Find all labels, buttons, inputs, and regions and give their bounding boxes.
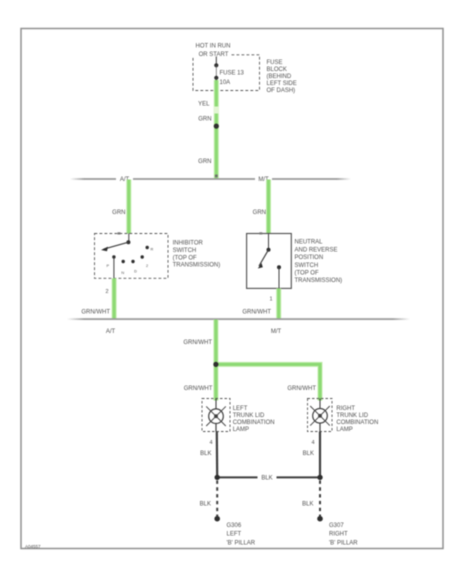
fuse block location label: [267, 60, 297, 94]
svg-text:RIGHT: RIGHT: [336, 406, 355, 412]
svg-text:D: D: [134, 270, 137, 274]
svg-text:AND REVERSE: AND REVERSE: [295, 247, 338, 253]
svg-text:G306: G306: [227, 523, 242, 529]
svg-text:(TOP OF: (TOP OF: [173, 256, 197, 262]
pin tick right box top: [259, 232, 262, 234]
left trunk lid combination lamp dashed box: [202, 399, 230, 432]
svg-text:A04557: A04557: [25, 544, 41, 549]
svg-text:GRN: GRN: [198, 117, 211, 123]
svg-text:SWITCH: SWITCH: [295, 263, 319, 269]
svg-text:N: N: [121, 271, 124, 275]
connector tick at rail 1: [215, 175, 218, 178]
svg-text:GRN/WHT: GRN/WHT: [183, 340, 212, 346]
svg-text:GRN: GRN: [198, 159, 211, 165]
svg-text:10A: 10A: [220, 80, 231, 86]
svg-text:G307: G307: [329, 523, 344, 529]
svg-text:2: 2: [146, 264, 148, 268]
svg-text:INHIBITOR: INHIBITOR: [173, 241, 204, 247]
connector rail 2: [67, 318, 410, 320]
left lamp label: [233, 406, 275, 433]
svg-text:YEL: YEL: [198, 101, 210, 107]
svg-text:COMBINATION: COMBINATION: [233, 420, 275, 426]
page frame border: [21, 29, 443, 549]
ground label G307 RIGHT B PILLAR: [329, 523, 358, 546]
neutral switch label: [295, 240, 343, 285]
inhibitor switch contacts: [101, 234, 154, 279]
ground point G306: [214, 516, 220, 522]
svg-text:2: 2: [105, 289, 108, 295]
splice junction dot: [213, 362, 218, 367]
svg-text:POSITION: POSITION: [295, 255, 324, 261]
fuse value label FUSE 13 10A: [220, 70, 245, 86]
connector rail 1: [70, 178, 351, 180]
ground label G306 LEFT B PILLAR: [227, 523, 256, 546]
neutral switch contacts: [258, 234, 281, 289]
right trunk lid combination lamp dashed box: [308, 399, 333, 432]
svg-text:GRN/WHT: GRN/WHT: [81, 309, 110, 315]
pin tick left box top: [118, 232, 121, 234]
svg-text:'B' PILLAR: 'B' PILLAR: [329, 540, 358, 546]
svg-text:LEFT: LEFT: [233, 406, 248, 412]
fuse F 13 symbol: [214, 57, 218, 90]
svg-text:FUSE: FUSE: [267, 60, 283, 66]
wire rail1 to neutral switch (green): [266, 180, 271, 234]
svg-text:P: P: [106, 264, 109, 268]
center feed wire below rail 2 (green): [213, 320, 218, 365]
left lamp bulb symbol: [206, 399, 226, 432]
svg-text:TRANSMISSION): TRANSMISSION): [173, 263, 221, 269]
svg-text:OF DASH): OF DASH): [267, 88, 296, 94]
svg-text:BLK: BLK: [303, 451, 314, 457]
svg-text:NEUTRAL: NEUTRAL: [295, 240, 324, 246]
fuse block dashed box: [193, 55, 260, 91]
svg-text:4: 4: [311, 440, 314, 446]
svg-text:M/T: M/T: [271, 329, 282, 335]
svg-text:A/T: A/T: [106, 329, 116, 335]
svg-text:LEFT: LEFT: [227, 532, 242, 538]
svg-text:'B' PILLAR: 'B' PILLAR: [227, 540, 256, 546]
svg-text:GRN: GRN: [112, 210, 125, 216]
svg-text:LAMP: LAMP: [336, 427, 352, 433]
label M/T on rail 1: [255, 174, 272, 183]
right lamp label: [336, 406, 378, 433]
right lamp ground wire: [319, 432, 321, 478]
in-line connector gap on feed wire: [214, 107, 219, 114]
svg-text:R: R: [151, 248, 154, 252]
svg-text:COMBINATION: COMBINATION: [336, 420, 378, 426]
neutral and reverse position switch box: [247, 234, 292, 289]
svg-text:GRN/WHT: GRN/WHT: [184, 386, 213, 392]
svg-text:1: 1: [269, 297, 272, 303]
label A/T on rail 1: [116, 174, 133, 183]
label BLK on link wire: [258, 473, 277, 482]
svg-text:BLOCK: BLOCK: [267, 67, 287, 73]
wire neutral switch to rail 2 (green): [276, 288, 281, 318]
ground point G307: [317, 516, 323, 522]
left lamp ground wire: [216, 432, 219, 478]
right dashed ground wire: [319, 481, 321, 517]
svg-text:GRN/WHT: GRN/WHT: [287, 386, 316, 392]
inhibitor switch label: [173, 241, 221, 269]
svg-text:BLK: BLK: [302, 501, 313, 507]
svg-text:BLK: BLK: [261, 476, 272, 482]
svg-text:TRUNK LID: TRUNK LID: [336, 413, 368, 419]
svg-text:BLK: BLK: [200, 451, 211, 457]
svg-text:GRN/WHT: GRN/WHT: [242, 309, 271, 315]
branch wire to left lamp (green): [213, 364, 218, 400]
splice junction dot: [214, 124, 219, 129]
header label HOT IN RUN OR START: [196, 44, 231, 58]
svg-text:LAMP: LAMP: [233, 427, 249, 433]
svg-text:BLK: BLK: [200, 501, 211, 507]
svg-text:4: 4: [209, 440, 212, 446]
svg-text:RIGHT: RIGHT: [329, 532, 348, 538]
svg-text:FUSE 13: FUSE 13: [220, 70, 245, 76]
svg-text:(TOP OF: (TOP OF: [295, 271, 319, 277]
svg-text:GRN: GRN: [253, 210, 266, 216]
svg-text:TRUNK LID: TRUNK LID: [233, 413, 265, 419]
ground link wire between lamps: [215, 475, 323, 480]
svg-text:(BEHIND: (BEHIND: [267, 74, 292, 80]
svg-text:SWITCH: SWITCH: [173, 248, 197, 254]
right lamp bulb symbol: [310, 399, 330, 432]
inhibitor switch dashed box: [95, 234, 169, 279]
wire rail1 to inhibitor switch (green): [126, 180, 131, 234]
svg-text:TRANSMISSION): TRANSMISSION): [295, 278, 343, 284]
svg-text:LEFT SIDE: LEFT SIDE: [267, 81, 297, 87]
left dashed ground wire: [216, 481, 218, 517]
svg-text:OR START: OR START: [199, 52, 229, 58]
wire feed from fuse (green): [214, 80, 219, 179]
branch wire to right lamp (green): [216, 364, 320, 400]
wire inhibitor switch to rail 2 (green): [112, 278, 117, 318]
svg-text:HOT IN RUN: HOT IN RUN: [196, 44, 231, 50]
